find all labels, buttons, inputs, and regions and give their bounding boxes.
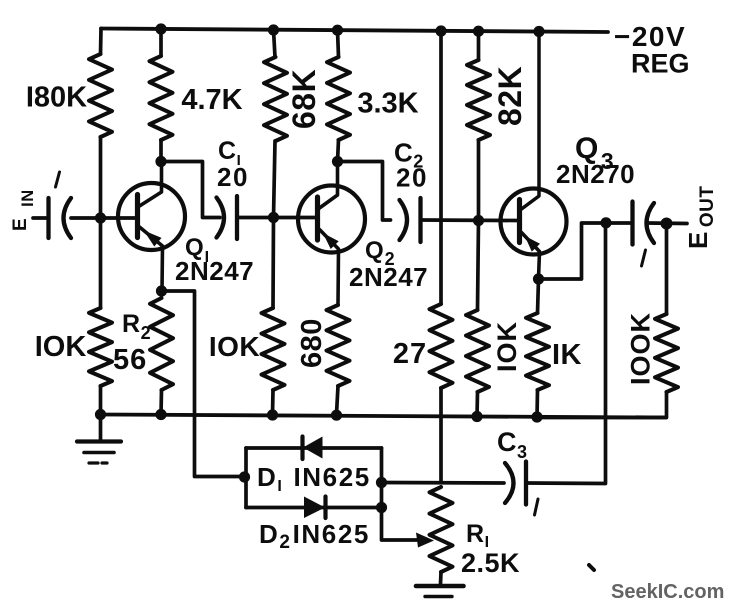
- wire C2 to Q3 base: [421, 218, 517, 222]
- wire input stub: [33, 216, 49, 220]
- wire diode D2 branch: [246, 506, 382, 510]
- transistor Q3 emitter arrow: [525, 236, 540, 252]
- svg-text:IOOK: IOOK: [626, 312, 656, 385]
- label 82K: [492, 66, 528, 126]
- svg-text:20: 20: [396, 163, 428, 193]
- label R2: [122, 310, 151, 343]
- node rail junction (3.3K): [332, 25, 343, 36]
- node diode network right junction (wiper): [376, 502, 387, 513]
- wire rail to 27 ohm resistor: [439, 31, 443, 304]
- transistor Q2 emitter arrow: [323, 233, 339, 249]
- resistor R 100K: [655, 314, 678, 392]
- svg-text:IOK: IOK: [492, 321, 522, 372]
- label R1: [466, 520, 490, 551]
- wire C1 to Q2 base: [237, 216, 316, 220]
- wire 10K(2) bottom lead: [271, 390, 275, 415]
- capacitor C1: [217, 196, 238, 239]
- potentiometer R1 wiper arrow: [416, 533, 434, 548]
- capacitor C_out output coupling: [633, 202, 655, 245]
- label E_OUT: [683, 186, 718, 249]
- node bus junction (680): [331, 410, 342, 421]
- node Q3 emitter junction: [533, 273, 544, 284]
- wire 10K bottom lead to ground bus: [99, 386, 103, 415]
- wire diode loop right edge: [380, 448, 384, 509]
- transistor Q3 body: [501, 189, 567, 255]
- resistor R 3.3K: [327, 57, 350, 140]
- svg-text:−20V: −20V: [614, 21, 686, 52]
- node rail junction (68K): [268, 24, 279, 35]
- svg-text:3.3K: 3.3K: [357, 88, 418, 120]
- label -20V: [614, 21, 686, 52]
- wire 10K(3) bottom lead: [475, 392, 479, 417]
- node Q1 base junction: [95, 212, 106, 223]
- label 1K: [552, 339, 582, 371]
- transistor Q1 emitter arrow: [144, 230, 162, 246]
- label C1: [218, 137, 241, 169]
- svg-text:680: 680: [296, 318, 328, 368]
- label 27: [393, 338, 427, 370]
- svg-text:D2IN625: D2IN625: [259, 519, 370, 553]
- resistor R2 56 ohm: [150, 298, 173, 390]
- wire 68K bottom to Q2 base node: [274, 141, 276, 218]
- resistor R 82K: [467, 60, 490, 140]
- label Q3 type 2N270: [556, 159, 635, 189]
- capacitor C3: [505, 462, 526, 505]
- label C3 value 1: [535, 499, 539, 515]
- resistor R 680: [327, 305, 350, 386]
- label 180K: [26, 82, 87, 114]
- wire -20V supply rail: [101, 29, 608, 33]
- svg-text:68K: 68K: [286, 69, 322, 129]
- node bus junction (1K): [531, 411, 542, 422]
- label R1 value 2.5K: [461, 548, 520, 578]
- wire 100K top lead: [665, 223, 669, 314]
- wire Q3 emitter to 1K: [538, 279, 539, 313]
- wire 82K top lead: [477, 31, 481, 60]
- node Q1 emitter junction: [156, 285, 167, 296]
- svg-text:82K: 82K: [492, 66, 528, 126]
- label D1 1N625: [257, 462, 371, 495]
- transistor Q2 body: [298, 186, 365, 253]
- label REG: [631, 49, 690, 79]
- node bus junction (ground): [95, 409, 106, 420]
- node rail junction (4.7K): [155, 23, 166, 34]
- node rail junction (82K): [473, 26, 484, 37]
- wire 82K bottom to Q3 base node: [477, 140, 481, 221]
- ground symbol (R1): [416, 572, 464, 597]
- label Q2: [365, 237, 396, 269]
- label D2 1N625: [259, 519, 370, 553]
- label C3: [497, 427, 528, 462]
- label Q1: [185, 234, 210, 266]
- label R2 value 56: [113, 344, 147, 376]
- wire Q3 emitter to output riser: [539, 223, 631, 279]
- wire stray speck: [589, 565, 594, 570]
- wire Q1 collector to C1 jog: [161, 162, 220, 218]
- node bus junction (10K Q3): [471, 411, 482, 422]
- wire Q2 collector to C2 jog: [338, 162, 391, 221]
- wire diode junction to C3: [382, 481, 505, 485]
- capacitor C_in input coupling: [49, 198, 72, 238]
- node Q2 collector junction: [332, 156, 343, 167]
- wire 680 bottom lead: [337, 386, 339, 414]
- node diode network right junction (C3/R1 wire): [376, 477, 387, 488]
- diode D2 1N625: [304, 497, 326, 519]
- node diode network left junction: [239, 471, 250, 482]
- svg-text:DIIN625: DIIN625: [257, 462, 371, 495]
- wire diode loop left edge: [244, 448, 248, 508]
- label 680: [296, 318, 328, 368]
- wire 27 ohm to R1 junction crossing ground bus: [439, 388, 443, 483]
- wire diode D1 branch: [246, 446, 382, 450]
- label C2: [394, 138, 424, 172]
- svg-text:IOK: IOK: [35, 331, 87, 363]
- node bus junction (10K Q2): [267, 409, 278, 420]
- wire 4.7K bottom lead: [159, 140, 163, 161]
- label Q2 type 2N247: [349, 262, 428, 292]
- node Q3 base junction: [473, 215, 484, 226]
- resistor R 1K: [526, 313, 549, 390]
- node rail junction (27 ohm line): [435, 25, 446, 36]
- svg-text:2.5K: 2.5K: [461, 548, 520, 578]
- label 68K: [286, 69, 322, 129]
- node bus junction (R2): [155, 409, 166, 420]
- ground symbol (bus): [77, 415, 121, 464]
- svg-text:IOK: IOK: [209, 331, 260, 362]
- wire 100K bottom corner to bus: [537, 392, 667, 418]
- resistor R 10K (Q1 base): [89, 308, 112, 386]
- svg-text:2N270: 2N270: [556, 159, 635, 189]
- wire 3.3K top lead: [338, 30, 339, 57]
- svg-text:IK: IK: [552, 339, 582, 371]
- resistor R 27: [430, 304, 453, 388]
- wire 1K bottom lead: [535, 390, 539, 418]
- transistor Q1 emitter stroke: [140, 227, 163, 291]
- transistor Q1 body: [118, 183, 185, 250]
- svg-text:4.7K: 4.7K: [181, 84, 242, 116]
- capacitor C2: [400, 198, 421, 242]
- node Q1 collector junction: [155, 156, 166, 167]
- label E_IN: [10, 189, 37, 231]
- transistor Q1 collector stroke: [140, 162, 162, 207]
- wire 180K top lead: [99, 29, 103, 55]
- wire Q2 base node down to 10K: [271, 218, 275, 309]
- label 10K vertical (Q3 base): [492, 321, 522, 372]
- wire input cap to Q1 base: [71, 216, 136, 220]
- resistor R 68K: [264, 57, 287, 141]
- node output junction at C3 riser: [600, 217, 611, 228]
- svg-text:SeekIC.com: SeekIC.com: [611, 581, 724, 603]
- wire C3 to output riser: [526, 223, 606, 484]
- svg-text:27: 27: [393, 338, 427, 370]
- resistor R 10K (Q3 base): [466, 310, 489, 392]
- label SeekIC.com watermark: [611, 581, 724, 603]
- wire Q3 base node to 10K(3): [478, 221, 479, 311]
- wire 180K bottom to Q1 base node: [99, 137, 103, 218]
- resistor R 180K: [89, 54, 112, 137]
- svg-text:REG: REG: [631, 49, 690, 79]
- svg-text:56: 56: [113, 344, 147, 376]
- label 3.3K: [357, 88, 418, 120]
- transistor Q2 collector stroke: [320, 162, 338, 209]
- wire output cap to E_OUT: [648, 221, 688, 225]
- wire rail to Q3 collector: [522, 32, 540, 210]
- label C1 value 20: [217, 162, 249, 192]
- wire R2 bottom lead: [159, 390, 163, 415]
- resistor R1 2.5K: [430, 487, 453, 572]
- wire 68K top lead: [274, 30, 276, 57]
- label input cap value 1: [56, 172, 60, 187]
- svg-text:2N247: 2N247: [175, 256, 254, 286]
- resistor R 4.7K: [150, 56, 173, 140]
- node output right junction (100K): [661, 218, 673, 230]
- wire 4.7K top lead: [159, 29, 163, 56]
- label 100K vertical: [626, 312, 656, 385]
- label Q1 type 2N247: [175, 256, 254, 286]
- node rail junction (Q3 collector): [533, 26, 544, 37]
- node Q2 base junction: [268, 212, 279, 223]
- wire Q1 emitter to diode network: [162, 291, 244, 477]
- transistor Q3 emitter stroke: [522, 233, 540, 279]
- resistor R 10K (Q2 base): [262, 308, 285, 390]
- label 10K (Q1 base): [35, 331, 87, 363]
- svg-text:I80K: I80K: [26, 82, 87, 114]
- wire 3.3K bottom lead: [338, 140, 339, 162]
- diode D1 1N625: [303, 437, 323, 460]
- label 10K (Q2 base): [209, 331, 260, 362]
- label output cap value 1: [642, 250, 646, 266]
- svg-text:2N247: 2N247: [349, 262, 428, 292]
- label C2 value 20: [396, 163, 428, 193]
- wire R1 wiper from diode junction: [382, 508, 425, 541]
- wire ground bus: [101, 415, 667, 418]
- wire Q1 base node down to 10K: [99, 218, 103, 308]
- label 4.7K: [181, 84, 242, 116]
- svg-text:20: 20: [217, 162, 249, 192]
- transistor Q2 emitter stroke: [320, 230, 339, 306]
- label Q3: [575, 132, 615, 174]
